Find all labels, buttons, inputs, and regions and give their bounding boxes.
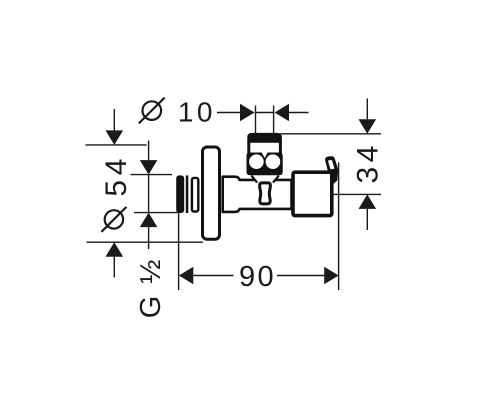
valve: clip arm left xyxy=(251,176,257,183)
valve: flange rosette xyxy=(203,147,220,239)
svg-text:54: 54 xyxy=(100,154,133,197)
valve: handle top bar xyxy=(247,133,282,143)
valve: thread stripe xyxy=(186,175,189,213)
valve: handle right rail xyxy=(279,141,282,154)
dim Ø54 extension line top xyxy=(86,144,147,146)
valve: handle left rail xyxy=(247,141,250,154)
valve: clip arm right xyxy=(273,176,279,183)
dim G1/2 top arrow xyxy=(148,141,150,161)
dim Ø54 top arrow xyxy=(113,109,115,131)
dim 90 left arrow xyxy=(179,267,194,285)
dim Ø10 dimension line left xyxy=(217,112,254,114)
valve: body barrel with step xyxy=(223,177,292,212)
valve: thread ridge 1 xyxy=(176,175,184,213)
valve: thread ridge 2 xyxy=(192,178,198,212)
valve: handle circle left xyxy=(249,154,264,169)
dim Ø10 extension line left xyxy=(255,106,257,134)
dim 90 right arrow xyxy=(277,275,324,277)
valve: white gap under handle xyxy=(252,175,278,183)
dim Ø54 bottom arrow xyxy=(106,242,124,257)
dim Ø54 extension line bottom xyxy=(87,241,204,243)
dim 90 extension line right xyxy=(338,163,340,291)
dim 34 extension line top xyxy=(281,133,382,135)
svg-text:34: 34 xyxy=(352,141,385,184)
dim Ø10 dimension line right xyxy=(275,104,289,122)
dim 34 bottom arrow xyxy=(359,194,377,209)
valve: cartridge stem xyxy=(260,183,271,204)
dim Ø54 diameter symbol xyxy=(101,207,126,232)
valve: outlet lever xyxy=(325,156,338,184)
valve: handle circle block xyxy=(247,153,283,176)
svg-text:G ½: G ½ xyxy=(135,257,167,318)
valve: lever white sliver xyxy=(328,160,335,169)
dim Ø10 extension line right xyxy=(273,106,275,134)
dim 34 extension line bottom xyxy=(334,193,382,195)
dim G1/2 bottom arrow xyxy=(140,213,158,228)
svg-text:90: 90 xyxy=(239,261,276,293)
valve: handle notch xyxy=(262,153,268,159)
dim 34 top arrow xyxy=(366,99,368,120)
dim G1/2 extension line top xyxy=(131,174,173,176)
dim G1/2 extension line bottom xyxy=(134,212,180,214)
svg-text:10: 10 xyxy=(178,97,216,128)
valve: handle circle right xyxy=(266,154,281,169)
dim 90 extension line left xyxy=(178,214,180,291)
valve: outlet socket xyxy=(293,172,332,215)
dim Ø10 dimension line middle xyxy=(256,112,274,114)
dim G1/2 middle line xyxy=(148,175,150,213)
dim Ø10 diameter symbol xyxy=(139,98,165,124)
